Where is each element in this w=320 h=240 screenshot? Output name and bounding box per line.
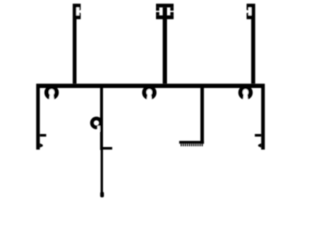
mid-left drop leg (100, 88, 103, 150)
mid-left drop arm (103, 147, 112, 150)
right end drop leg (261, 88, 265, 150)
mid-left screw-boss gap (white) (97, 126, 100, 132)
screw-boss hook 2 gap (white) (146, 95, 152, 103)
screw-boss hook 2 ring (144, 88, 154, 98)
screw-boss hook 2 hole (white) (146, 89, 152, 95)
top-right C-clip notch (white) (248, 7, 251, 15)
mid-right bottom arm (179, 141, 204, 144)
top-left C-clip body (76, 4, 80, 20)
mid-left tail tip blob (100, 192, 104, 198)
mid-left drop tail (101, 150, 103, 193)
left drop tick (40, 134, 46, 137)
screw-boss hook 1 hole (white) (49, 89, 55, 95)
mid-right gasket serration (181, 144, 204, 146)
top-middle I-beam top-right lip (170, 7, 173, 10)
top-right mullion stem (251, 4, 255, 84)
screw-boss hook 3 ring (241, 88, 251, 98)
screw-boss hook 1 gap (white) (49, 95, 55, 103)
screw-boss hook 1 ring (47, 88, 57, 98)
left drop foot bulge (40, 143, 43, 147)
top-middle I-beam mid-left lip (156, 12, 159, 15)
top-right C-clip opening slot (white) (246, 11, 249, 13)
mid-left screw-boss ring (92, 118, 101, 127)
top-right C-clip body (247, 4, 252, 20)
left end drop leg (36, 88, 40, 150)
top-left C-clip opening slot (white) (79, 11, 82, 13)
top-middle I-beam mid-right lip (170, 12, 173, 15)
top-middle mullion stem (163, 7, 167, 83)
top-middle I-beam top-left lip (156, 7, 159, 10)
main horizontal rail (bus) (36, 84, 265, 88)
screw-boss hook 3 gap (white) (243, 95, 249, 103)
right drop foot bulge (258, 143, 261, 147)
screw-boss hook 3 hole (white) (243, 89, 249, 95)
top-left mullion stem (73, 4, 77, 84)
top-left C-clip notch (white) (76, 7, 79, 15)
top-middle I-beam mid bar (156, 15, 174, 19)
top-middle I-beam top bar (156, 4, 174, 8)
right drop tick (255, 134, 261, 137)
mid-right drop leg (200, 88, 204, 144)
